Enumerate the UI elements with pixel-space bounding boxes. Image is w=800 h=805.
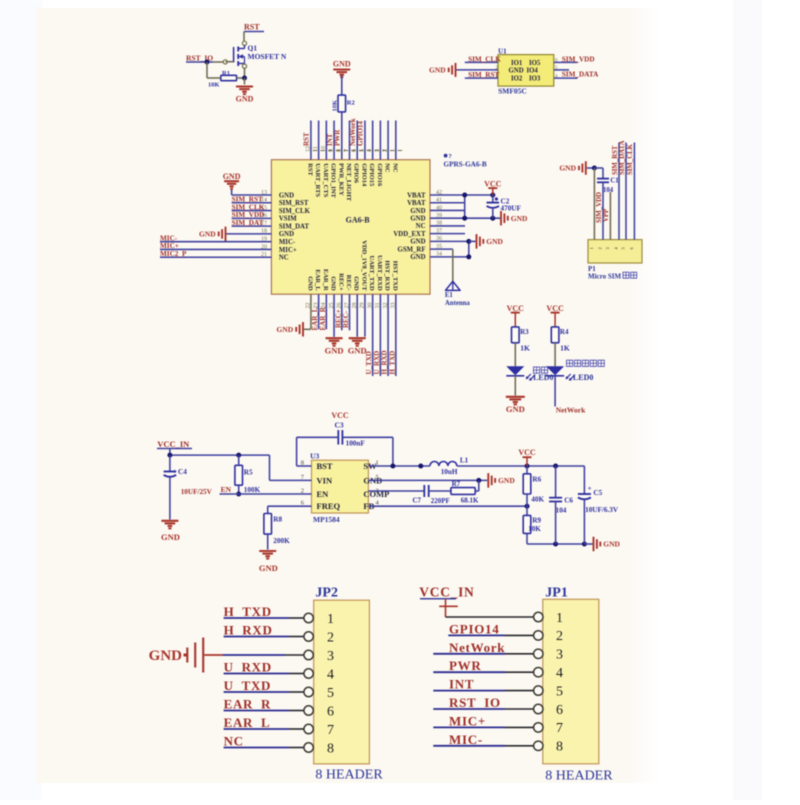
svg-text:HST_TXD: HST_TXD bbox=[391, 261, 398, 291]
svg-text:C3: C3 bbox=[335, 421, 344, 430]
svg-text:VDD_EXT: VDD_EXT bbox=[393, 231, 426, 238]
svg-text:68.1K: 68.1K bbox=[461, 497, 479, 505]
svg-text:GND: GND bbox=[279, 192, 294, 199]
svg-text:1: 1 bbox=[390, 149, 396, 152]
svg-text:5: 5 bbox=[327, 686, 334, 701]
svg-text:EAR L: EAR L bbox=[224, 715, 271, 730]
svg-text:EAR_R: EAR_R bbox=[319, 306, 327, 330]
svg-text:H RXD: H RXD bbox=[224, 623, 273, 638]
svg-text:R5: R5 bbox=[244, 469, 253, 477]
svg-text:R2: R2 bbox=[347, 100, 355, 107]
svg-text:VCC_IN: VCC_IN bbox=[419, 585, 474, 600]
svg-text:L1: L1 bbox=[460, 456, 469, 464]
svg-text:REC+: REC+ bbox=[337, 273, 344, 291]
svg-text:SIM_CLK: SIM_CLK bbox=[279, 208, 311, 215]
svg-text:MP1584: MP1584 bbox=[313, 515, 340, 524]
svg-text:2: 2 bbox=[383, 149, 389, 152]
svg-text:U RXD: U RXD bbox=[224, 660, 272, 675]
svg-text:1: 1 bbox=[556, 611, 563, 626]
svg-text:UART_TXD: UART_TXD bbox=[368, 256, 375, 291]
svg-text:R7: R7 bbox=[452, 480, 461, 488]
svg-text:UART_RXD: UART_RXD bbox=[376, 255, 383, 291]
svg-text:10UF/6.3V: 10UF/6.3V bbox=[585, 506, 619, 514]
svg-text:8 HEADER: 8 HEADER bbox=[315, 768, 383, 783]
svg-text:6: 6 bbox=[352, 149, 358, 152]
svg-text:GND: GND bbox=[259, 563, 278, 573]
svg-text:40K: 40K bbox=[531, 496, 544, 504]
svg-text:10K: 10K bbox=[528, 525, 541, 533]
svg-text:C6: C6 bbox=[564, 497, 573, 505]
svg-text:VCC: VCC bbox=[507, 304, 525, 313]
svg-text:R1: R1 bbox=[222, 70, 230, 77]
svg-text:REC-: REC- bbox=[342, 310, 350, 328]
svg-text:GND: GND bbox=[330, 276, 337, 291]
svg-text:VSIM: VSIM bbox=[279, 216, 297, 223]
svg-text:NC: NC bbox=[384, 163, 391, 173]
svg-text:IO1: IO1 bbox=[511, 60, 523, 67]
svg-text:MIC-: MIC- bbox=[279, 239, 296, 246]
svg-text:SIM_VDD: SIM_VDD bbox=[596, 192, 603, 223]
svg-text:104: 104 bbox=[603, 187, 614, 194]
svg-text:3: 3 bbox=[327, 649, 334, 664]
svg-text:4: 4 bbox=[327, 667, 334, 682]
svg-text:10UF/25V: 10UF/25V bbox=[181, 488, 213, 496]
svg-text:5: 5 bbox=[359, 149, 365, 152]
svg-text:C5: C5 bbox=[593, 489, 602, 497]
svg-text:GPIO6: GPIO6 bbox=[353, 163, 360, 184]
svg-text:EAR R: EAR R bbox=[224, 697, 272, 712]
svg-text:6: 6 bbox=[327, 704, 334, 719]
svg-text:LED0: LED0 bbox=[533, 373, 553, 382]
svg-text:1K: 1K bbox=[520, 344, 530, 353]
svg-text:JP1: JP1 bbox=[545, 586, 568, 601]
svg-text:MOSFET N: MOSFET N bbox=[248, 52, 287, 61]
svg-text:GND: GND bbox=[353, 276, 360, 291]
svg-text:H TXD: H TXD bbox=[224, 604, 272, 619]
svg-text:SIM_DATA: SIM_DATA bbox=[562, 71, 599, 79]
svg-text:GND: GND bbox=[506, 404, 525, 414]
svg-text:IO3: IO3 bbox=[529, 76, 541, 83]
svg-text:GSM_RF: GSM_RF bbox=[398, 246, 426, 253]
svg-text:PWR: PWR bbox=[449, 658, 481, 673]
svg-text:?: ? bbox=[449, 153, 452, 160]
svg-text:R9: R9 bbox=[532, 517, 541, 525]
svg-text:UART_RTS: UART_RTS bbox=[314, 163, 321, 197]
svg-text:VCC: VCC bbox=[546, 304, 564, 313]
svg-text:6: 6 bbox=[556, 703, 563, 718]
svg-text:RST IO: RST IO bbox=[449, 695, 501, 710]
svg-text:8 HEADER: 8 HEADER bbox=[545, 769, 613, 784]
svg-text:GPIO14: GPIO14 bbox=[360, 163, 367, 187]
svg-text:PWR_KEY: PWR_KEY bbox=[337, 163, 344, 196]
svg-text:IO4: IO4 bbox=[527, 67, 539, 74]
svg-text:GND: GND bbox=[410, 208, 425, 215]
svg-text:GND: GND bbox=[410, 215, 425, 222]
svg-text:MIC+: MIC+ bbox=[279, 247, 297, 254]
svg-text:SIM_RST: SIM_RST bbox=[279, 200, 309, 207]
svg-text:SIM_DAT: SIM_DAT bbox=[232, 219, 264, 227]
svg-text:INT: INT bbox=[449, 677, 474, 692]
svg-text:SIM_CLK: SIM_CLK bbox=[627, 143, 634, 175]
svg-text:NetWork: NetWork bbox=[556, 406, 586, 415]
svg-text:HST_RXD: HST_RXD bbox=[384, 260, 391, 291]
svg-text:GND: GND bbox=[279, 231, 294, 238]
svg-text:200K: 200K bbox=[273, 537, 290, 545]
svg-text:8: 8 bbox=[327, 741, 334, 756]
svg-text:C4: C4 bbox=[178, 468, 187, 476]
svg-text:GPRS-GA6-B: GPRS-GA6-B bbox=[444, 161, 487, 169]
svg-text:NC: NC bbox=[416, 223, 426, 230]
svg-text:VIN: VIN bbox=[317, 475, 333, 485]
svg-text:5: 5 bbox=[556, 684, 563, 699]
svg-text:3: 3 bbox=[556, 648, 563, 663]
svg-text:+: + bbox=[588, 485, 592, 493]
svg-text:VBAT: VBAT bbox=[407, 192, 426, 199]
svg-text:8: 8 bbox=[556, 740, 563, 755]
svg-text:GND: GND bbox=[306, 276, 313, 291]
svg-text:R8: R8 bbox=[273, 516, 282, 524]
svg-text:BST: BST bbox=[317, 461, 333, 471]
svg-text:U3: U3 bbox=[310, 452, 319, 461]
svg-text:IO5: IO5 bbox=[529, 60, 541, 67]
svg-text:10K: 10K bbox=[331, 100, 338, 112]
svg-text:7: 7 bbox=[556, 721, 563, 736]
svg-text:H_TXD: H_TXD bbox=[388, 351, 396, 375]
svg-text:104: 104 bbox=[556, 507, 567, 515]
svg-text:1: 1 bbox=[589, 247, 594, 249]
svg-text:GND: GND bbox=[511, 214, 528, 223]
svg-text:GND: GND bbox=[277, 325, 294, 334]
svg-text:IO2: IO2 bbox=[511, 76, 523, 83]
svg-text:GPIO15: GPIO15 bbox=[368, 163, 375, 187]
svg-text:EAR_R: EAR_R bbox=[322, 269, 329, 291]
svg-text:GPIO16: GPIO16 bbox=[376, 163, 383, 187]
svg-text:GPIO14: GPIO14 bbox=[449, 621, 499, 636]
svg-text:VBAT: VBAT bbox=[407, 200, 426, 207]
svg-text:GPIO1_INT: GPIO1_INT bbox=[330, 163, 337, 198]
svg-text:LED0: LED0 bbox=[573, 373, 593, 382]
svg-text:MIC+: MIC+ bbox=[449, 713, 486, 728]
svg-text:4: 4 bbox=[556, 666, 563, 681]
svg-text:2: 2 bbox=[556, 629, 563, 644]
svg-text:GND: GND bbox=[325, 346, 344, 356]
svg-text:FREQ: FREQ bbox=[317, 501, 341, 511]
svg-text:NC: NC bbox=[279, 255, 289, 262]
svg-text:SIM_DATA: SIM_DATA bbox=[619, 140, 626, 175]
svg-text:9: 9 bbox=[329, 149, 335, 152]
svg-text:RST: RST bbox=[244, 23, 260, 32]
svg-text:R3: R3 bbox=[520, 328, 529, 336]
svg-text:GND: GND bbox=[429, 66, 446, 75]
svg-text:RST: RST bbox=[303, 132, 311, 146]
svg-text:VCC: VCC bbox=[518, 448, 536, 457]
svg-text:1: 1 bbox=[327, 612, 334, 627]
svg-text:EAR_L: EAR_L bbox=[314, 269, 321, 291]
svg-text:10uH: 10uH bbox=[441, 468, 458, 476]
svg-text:10K: 10K bbox=[208, 82, 220, 89]
svg-text:NET_LIGHT: NET_LIGHT bbox=[345, 163, 352, 202]
svg-text:GND: GND bbox=[410, 254, 425, 261]
svg-text:11: 11 bbox=[313, 146, 319, 152]
svg-text:GND: GND bbox=[149, 648, 183, 664]
svg-text:EN: EN bbox=[317, 489, 330, 499]
svg-text:NC: NC bbox=[224, 734, 244, 749]
svg-text:+: + bbox=[173, 468, 177, 476]
svg-text:GND: GND bbox=[486, 237, 503, 246]
svg-text:SIM_DAT: SIM_DAT bbox=[279, 223, 310, 230]
svg-text:EN: EN bbox=[221, 485, 232, 494]
svg-text:VDD_1V8_VOUT: VDD_1V8_VOUT bbox=[360, 240, 367, 291]
svg-text:MIC2_P: MIC2_P bbox=[160, 250, 187, 258]
svg-text:PWR: PWR bbox=[334, 129, 342, 146]
svg-text:E1: E1 bbox=[445, 292, 454, 299]
svg-text:Micro SIM: Micro SIM bbox=[588, 273, 622, 281]
svg-text:C1: C1 bbox=[610, 177, 619, 184]
svg-text:SIM_VDD: SIM_VDD bbox=[562, 55, 595, 63]
svg-text:GA6-B: GA6-B bbox=[346, 216, 371, 225]
svg-text:GND: GND bbox=[223, 172, 241, 181]
svg-text:100K: 100K bbox=[244, 486, 261, 494]
svg-text:SMF05C: SMF05C bbox=[498, 87, 527, 96]
svg-text:JP2: JP2 bbox=[315, 586, 338, 601]
svg-text:UART_CTS: UART_CTS bbox=[322, 163, 329, 197]
svg-text:GND: GND bbox=[161, 532, 180, 542]
svg-text:MIC-: MIC- bbox=[449, 732, 483, 747]
svg-text:470UF: 470UF bbox=[501, 205, 522, 213]
svg-text:4: 4 bbox=[367, 149, 373, 152]
svg-text:7: 7 bbox=[344, 149, 350, 152]
svg-text:7: 7 bbox=[327, 723, 334, 738]
svg-text:GND: GND bbox=[199, 230, 216, 239]
svg-text:VCC_IN: VCC_IN bbox=[157, 439, 190, 449]
svg-text:GND: GND bbox=[559, 164, 576, 173]
svg-text:VPP: VPP bbox=[603, 209, 610, 222]
svg-text:SIM_RST: SIM_RST bbox=[612, 145, 619, 175]
svg-text:2: 2 bbox=[598, 247, 603, 249]
svg-text:GND: GND bbox=[410, 239, 425, 246]
svg-text:Antenna: Antenna bbox=[445, 300, 471, 307]
svg-text:GND: GND bbox=[348, 346, 367, 356]
svg-text:NC: NC bbox=[391, 163, 398, 173]
svg-text:1K: 1K bbox=[560, 344, 570, 353]
svg-text:3: 3 bbox=[375, 149, 381, 152]
svg-text:100nF: 100nF bbox=[346, 440, 366, 448]
svg-text:R6: R6 bbox=[532, 476, 541, 484]
svg-text:GPIO14: GPIO14 bbox=[357, 121, 365, 146]
svg-text:R4: R4 bbox=[560, 328, 569, 336]
svg-text:VCC: VCC bbox=[331, 411, 349, 420]
svg-text:RST: RST bbox=[306, 163, 313, 176]
svg-text:U TXD: U TXD bbox=[224, 678, 272, 693]
svg-text:GND: GND bbox=[509, 67, 524, 74]
svg-text:REC-: REC- bbox=[345, 275, 352, 291]
svg-text:2: 2 bbox=[327, 630, 334, 645]
svg-text:220PF: 220PF bbox=[431, 497, 450, 505]
svg-text:NetWork: NetWork bbox=[449, 640, 505, 655]
svg-text:8: 8 bbox=[336, 149, 342, 152]
svg-text:GND: GND bbox=[236, 95, 254, 104]
svg-text:GND: GND bbox=[603, 540, 620, 549]
svg-text:GND: GND bbox=[498, 476, 515, 485]
svg-text:C7: C7 bbox=[413, 497, 422, 505]
svg-text:GND: GND bbox=[333, 60, 351, 69]
